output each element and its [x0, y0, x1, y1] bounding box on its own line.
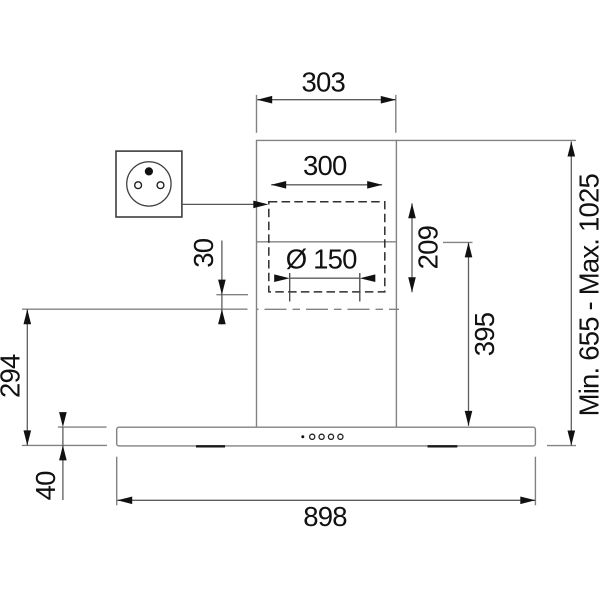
svg-text:294: 294 — [0, 354, 26, 398]
svg-text:898: 898 — [303, 501, 347, 532]
svg-text:395: 395 — [469, 312, 500, 356]
svg-text:Min. 655 - Max. 1025: Min. 655 - Max. 1025 — [574, 174, 600, 417]
svg-text:40: 40 — [30, 471, 61, 500]
svg-text:30: 30 — [188, 238, 219, 267]
svg-text:Ø 150: Ø 150 — [286, 244, 357, 275]
svg-text:303: 303 — [301, 67, 345, 98]
svg-text:300: 300 — [303, 150, 347, 181]
svg-text:209: 209 — [412, 226, 443, 269]
